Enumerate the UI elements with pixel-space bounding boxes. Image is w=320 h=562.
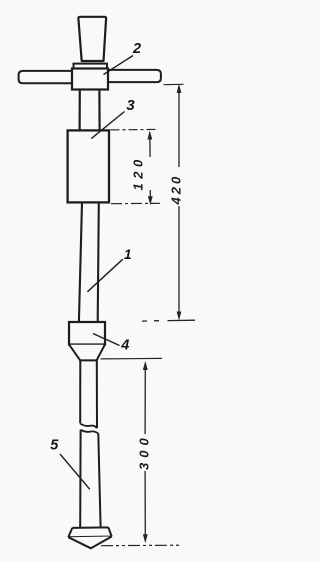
dim 420 top arrowhead [177,84,182,93]
label 3 [126,97,135,114]
coupling item 4 box [69,322,105,345]
lower rod item 5 lower part [80,430,100,528]
dim 120 bottom extension line [111,202,160,204]
dim 120 bottom arrowhead [148,196,153,205]
coupling taper [69,345,105,361]
dim text 120 [131,155,146,190]
dim 120 line lower segment [149,190,151,198]
dim text 420 [169,174,184,206]
hub item 2 body [72,69,108,90]
leader to coupling for label 4 [93,334,120,346]
hub flange [74,64,108,69]
leader to hub for label 2 [104,56,134,75]
dim 300 top arrowhead [143,361,148,370]
svg-text:420: 420 [169,174,184,206]
rod between hub and weight [80,90,100,131]
dim 300 line upper segment [144,364,146,435]
cone tip collar [68,527,111,537]
dim 300 top extension line [101,357,162,360]
dim 300 bottom extension line [101,544,182,547]
dim 120 top extension line [111,128,159,131]
svg-text:120: 120 [131,155,146,190]
svg-text:5: 5 [50,438,59,454]
dim 420 bottom arrowhead [177,312,182,321]
break symbol [80,424,98,434]
driving weight item 3 [68,130,109,202]
svg-text:300: 300 [137,433,152,470]
knob (handle grip) [78,17,106,61]
label 2 [132,41,141,57]
leader to shaft for label 1 [87,259,122,292]
dim text 300 [137,433,152,470]
dim 120 line upper segment [149,133,151,158]
dim 420 line lower segment [178,206,180,316]
leader to weight for label 3 [91,112,124,139]
tommy bar right segment [107,70,161,82]
cone tip point [68,537,111,549]
lower rod item 5 upper part [80,361,97,428]
svg-text:4: 4 [120,337,129,353]
svg-text:1: 1 [124,247,132,262]
svg-text:2: 2 [132,41,141,57]
dim 420 line upper segment [178,86,180,167]
label 4 [120,337,129,353]
tommy bar left segment [19,71,73,83]
label 1 [124,247,132,262]
dim 300 bottom arrowhead [143,534,148,543]
dim 420 top extension line [164,83,184,85]
dim 420 bottom extension line [142,319,195,322]
dim 300 line lower segment [144,471,146,539]
label 5 [50,438,59,454]
svg-text:3: 3 [126,97,135,114]
main shaft item 1 [79,203,99,322]
dim 120 top arrowhead [147,131,152,140]
leader to lower rod for label 5 [60,454,90,489]
